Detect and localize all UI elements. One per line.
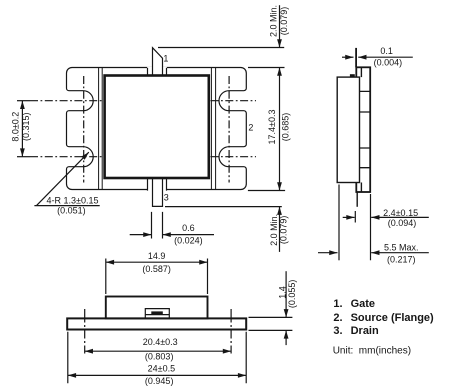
vertical centerline left slots bbox=[83, 76, 85, 183]
svg-text:(0.055): (0.055) bbox=[287, 280, 297, 309]
svg-text:20.4±0.3: 20.4±0.3 bbox=[143, 337, 178, 347]
side view cap column bbox=[356, 67, 370, 192]
svg-text:(0.051): (0.051) bbox=[57, 206, 86, 216]
side view flange bbox=[337, 77, 359, 182]
svg-text:24±0.5: 24±0.5 bbox=[148, 364, 175, 374]
svg-text:(0.587): (0.587) bbox=[142, 264, 171, 274]
svg-text:(0.803): (0.803) bbox=[145, 352, 174, 362]
bottom view lead bar bbox=[151, 311, 163, 314]
svg-text:(0.004): (0.004) bbox=[374, 58, 403, 68]
svg-text:Unit: mm(inches): Unit: mm(inches) bbox=[333, 345, 411, 356]
dim 1.4 ext lines bbox=[249, 317, 293, 330]
svg-text:Gate: Gate bbox=[351, 298, 375, 310]
svg-text:(0.094): (0.094) bbox=[388, 218, 417, 228]
dim 5.5 ext line bbox=[338, 185, 340, 261]
svg-text:3.: 3. bbox=[333, 325, 342, 337]
svg-text:1: 1 bbox=[163, 54, 168, 64]
dim 5.5 lines bbox=[318, 252, 338, 254]
centerline upper-left slot bbox=[30, 100, 103, 102]
dim 14.9 ext lines bbox=[106, 259, 208, 295]
svg-text:Source (Flange): Source (Flange) bbox=[351, 312, 434, 324]
dim 2.4 tick and ext bbox=[355, 194, 370, 260]
svg-text:5.5 Max.: 5.5 Max. bbox=[384, 243, 419, 253]
svg-text:Drain: Drain bbox=[351, 325, 379, 337]
side view cap inner wall bottom bbox=[360, 183, 362, 193]
dim 24 line bbox=[68, 374, 246, 376]
svg-text:17.4±0.3: 17.4±0.3 bbox=[267, 110, 277, 145]
centerline upper-right slot bbox=[211, 100, 257, 102]
bottom view lead window bbox=[145, 309, 169, 318]
dim 1.4 arrows bbox=[285, 271, 287, 317]
pin 3 lead bbox=[153, 178, 163, 206]
ext lines pin3 width bbox=[152, 212, 163, 239]
top view cap overhang thin lines bbox=[99, 68, 216, 191]
svg-text:(0.945): (0.945) bbox=[145, 376, 174, 386]
pin 1 lead bbox=[153, 48, 163, 76]
pin 3 stub bbox=[147, 178, 167, 191]
dim 2.4 lines bbox=[343, 216, 355, 218]
svg-text:8.0±0.2: 8.0±0.2 bbox=[10, 112, 20, 142]
ext line pin3 tip bbox=[165, 206, 282, 208]
dim 20.4 line bbox=[85, 350, 231, 352]
side view cap inner wall top bbox=[360, 67, 362, 77]
top view ceramic body (thick square) bbox=[105, 76, 209, 179]
centerline lower-right slot bbox=[211, 156, 257, 158]
dim 17.4 line bbox=[279, 68, 281, 191]
svg-text:(0.217): (0.217) bbox=[387, 255, 416, 265]
svg-text:(0.315): (0.315) bbox=[21, 112, 31, 141]
svg-text:0.1: 0.1 bbox=[380, 46, 393, 56]
svg-text:2.0 Min.: 2.0 Min. bbox=[269, 5, 279, 37]
svg-text:(0.079): (0.079) bbox=[278, 216, 288, 245]
svg-text:(0.079): (0.079) bbox=[279, 7, 289, 36]
dim 24 ext lines bbox=[68, 332, 246, 383]
svg-text:4-R 1.3±0.15: 4-R 1.3±0.15 bbox=[47, 196, 99, 206]
dim 0.1 lines bbox=[342, 56, 354, 58]
bottom view cap bbox=[106, 297, 208, 319]
top view flange outline bbox=[67, 68, 247, 190]
side view bottom lead bbox=[356, 192, 358, 207]
pin 1 stub bbox=[147, 67, 167, 76]
svg-text:14.9: 14.9 bbox=[148, 251, 166, 261]
dim 2.0 min top line bbox=[279, 5, 281, 47]
svg-text:2: 2 bbox=[248, 123, 253, 133]
dim 0.6 lines bbox=[130, 234, 152, 236]
dim 4-R leader bbox=[37, 152, 89, 205]
svg-text:2.: 2. bbox=[333, 312, 342, 324]
svg-text:3: 3 bbox=[164, 193, 169, 203]
bottom view flange bar bbox=[67, 318, 246, 329]
dim 2.0 min bottom line bbox=[279, 207, 281, 252]
svg-text:2.4±0.15: 2.4±0.15 bbox=[383, 208, 418, 218]
dim 8.0 line bbox=[21, 101, 23, 157]
ext line pin1 tip bbox=[158, 47, 284, 49]
dim 14.9 line bbox=[106, 261, 208, 263]
vertical centerline right slots bbox=[228, 76, 230, 183]
side view top lead bbox=[355, 48, 357, 67]
side view lead seal bump bbox=[350, 74, 355, 77]
svg-text:(0.685): (0.685) bbox=[280, 113, 290, 142]
svg-text:0.6: 0.6 bbox=[182, 223, 195, 233]
side view cap divisions bbox=[356, 91, 370, 167]
svg-text:(0.024): (0.024) bbox=[174, 236, 203, 246]
ext line flange top bbox=[248, 67, 285, 69]
centerline lower-left slot bbox=[30, 156, 103, 158]
svg-text:1.: 1. bbox=[333, 298, 342, 310]
bottom view screw centerlines bbox=[85, 309, 231, 354]
ext line flange bottom bbox=[248, 190, 285, 192]
